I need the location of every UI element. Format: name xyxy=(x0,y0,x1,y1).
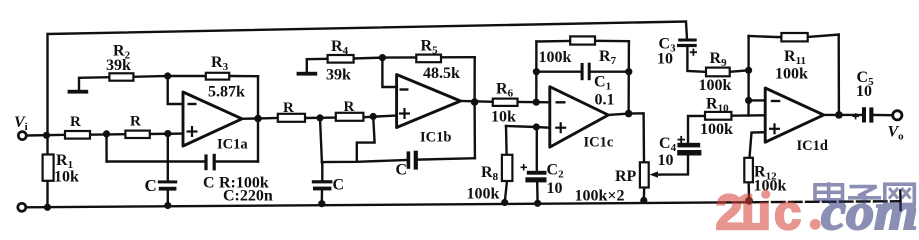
node R9 junction xyxy=(745,67,752,74)
wire IC1d plus input xyxy=(750,132,766,158)
capacitor C5 plus sign xyxy=(853,113,859,119)
op-amp IC1d plus sign xyxy=(769,123,780,134)
wire IC1c loop top right xyxy=(595,40,629,43)
wire IC1d output xyxy=(824,114,862,116)
node IC1d output xyxy=(835,111,843,119)
wire IC1b output xyxy=(461,100,493,103)
capacitor C3 xyxy=(677,39,697,48)
wire stage2 ground cap stub xyxy=(321,162,323,180)
wire top rail xyxy=(48,22,687,40)
wire C1 right lead xyxy=(591,70,629,72)
resistor R1 xyxy=(43,155,54,181)
wire R4 lead to ground xyxy=(307,59,328,72)
resistor R9 xyxy=(706,68,730,77)
node Vo terminal xyxy=(893,111,902,120)
svg-text:IC1b: IC1b xyxy=(420,130,451,146)
resistor R7 xyxy=(570,36,595,44)
svg-text:C: C xyxy=(396,162,408,179)
resistor R6 xyxy=(493,99,518,106)
wire junction to R3 xyxy=(168,75,206,77)
wire R2 left lead to ground xyxy=(79,77,109,90)
op-amp IC1d minus sign xyxy=(771,100,781,102)
svg-text:100k: 100k xyxy=(775,66,808,83)
svg-text:IC1a: IC1a xyxy=(217,137,248,153)
capacitor C1 xyxy=(581,63,591,80)
wire stage2 chain a xyxy=(305,116,336,119)
resistor R10 xyxy=(705,112,731,120)
node IC1c output xyxy=(625,110,633,118)
svg-text:C: C xyxy=(145,176,157,195)
wire Vi input xyxy=(27,134,65,137)
node C2 top junction xyxy=(533,123,540,130)
node RP ground xyxy=(640,197,647,204)
resistor R8 xyxy=(502,155,513,181)
wire stage1 feedback horizontal left xyxy=(107,160,205,162)
svg-text:RP: RP xyxy=(615,168,637,185)
wire IC1a feedback vertical xyxy=(257,76,259,161)
capacitor C5 xyxy=(862,107,873,122)
wire IC1c loop top left xyxy=(536,40,570,43)
op-amp IC1a plus sign xyxy=(187,126,198,137)
svg-text:21ıc: 21ıc xyxy=(716,186,802,231)
wire R9 to junction xyxy=(730,70,749,72)
op-amp IC1c minus sign xyxy=(556,101,566,103)
svg-text:10: 10 xyxy=(856,83,872,100)
node stage1 junction2 xyxy=(164,130,171,137)
capacitor C4 xyxy=(677,143,701,156)
node stage1 cap ground xyxy=(164,202,171,209)
wire R11 loop top right xyxy=(808,35,839,37)
resistor R (stage1 first) xyxy=(65,131,90,139)
svg-text:0.1: 0.1 xyxy=(595,92,615,109)
resistor R5 xyxy=(416,55,441,63)
svg-text:100k: 100k xyxy=(699,77,732,94)
node ground terminal xyxy=(18,203,26,211)
capacitor C2 plus sign xyxy=(521,164,528,171)
svg-text:100k: 100k xyxy=(700,121,733,138)
watermark hanzi dian xyxy=(815,182,845,203)
wire stage2 zigzag xyxy=(357,117,375,162)
wire R5 to vertical xyxy=(441,56,475,58)
ground symbol (R4) xyxy=(297,72,318,76)
wire R2 to junction xyxy=(133,75,167,78)
capacitor C (stage2 feedback) xyxy=(407,151,418,170)
wire stage1 feedback horizontal right xyxy=(216,160,258,162)
svg-text:10: 10 xyxy=(657,51,673,68)
wire R1 leads xyxy=(46,135,48,154)
wire stage2 feedback vertical xyxy=(473,102,476,158)
wire R6 right to minus node xyxy=(518,101,550,104)
capacitor C3 plus sign xyxy=(690,49,697,56)
wire R to IC1a plus input xyxy=(150,132,184,135)
svg-text:100k: 100k xyxy=(467,186,500,203)
resistor R (stage2 second) xyxy=(336,113,364,121)
wire stage1 junction1 drop xyxy=(105,134,107,162)
wire stage2 feedback horizontal xyxy=(322,160,407,162)
wire IC1d minus input xyxy=(749,99,766,101)
ground symbol (R2) xyxy=(68,90,89,94)
watermark dot xyxy=(810,219,821,230)
resistor R11 xyxy=(781,33,807,41)
svg-text:100k: 100k xyxy=(539,49,572,66)
watermark hanzi wang xyxy=(885,184,915,204)
op-amp IC1b plus sign xyxy=(399,108,410,119)
svg-text:R: R xyxy=(70,114,81,130)
svg-text:10: 10 xyxy=(658,152,674,169)
node R8 ground xyxy=(501,199,508,206)
wire bottom rail end tick xyxy=(899,191,902,211)
svg-text:48.5k: 48.5k xyxy=(423,65,460,82)
svg-text:10: 10 xyxy=(547,180,563,197)
wire stage1 ground cap drop xyxy=(167,134,169,181)
wire IC1c plus line xyxy=(506,126,550,128)
op-amp IC1c xyxy=(550,87,609,147)
wire C4 top lead xyxy=(688,116,705,143)
potentiometer RP wiper arrow xyxy=(650,171,659,177)
op-amp IC1c plus sign xyxy=(555,122,566,133)
wire R11 loop right vertical xyxy=(838,35,841,115)
resistor R4 xyxy=(328,55,354,63)
wire IC1c output xyxy=(608,113,644,162)
op-amp IC1b minus sign xyxy=(400,88,409,90)
svg-text:39k: 39k xyxy=(106,57,131,74)
node stage2 cap ground xyxy=(318,200,325,207)
svg-text:R: R xyxy=(283,100,294,116)
wire between R and R xyxy=(90,133,125,136)
node stage2 junction1 xyxy=(316,114,323,121)
wire R8 leads xyxy=(505,126,508,155)
node R10 minus junction xyxy=(745,97,752,104)
wire junction to R5 xyxy=(382,56,416,59)
wire C2 leads xyxy=(536,127,538,171)
node R2-R3 junction xyxy=(164,72,171,79)
wire IC1c loop left vertical xyxy=(535,42,538,103)
wire R4 to junction xyxy=(354,56,383,59)
node R6 minus junction xyxy=(533,99,540,106)
node stage1 junction1 xyxy=(103,130,110,137)
svg-text:IC1d: IC1d xyxy=(797,138,828,154)
resistor R2 xyxy=(109,73,133,80)
node IC1b output xyxy=(471,98,479,106)
node C2 ground xyxy=(534,200,541,207)
node IC1a output xyxy=(254,115,262,123)
node bottom-left junction xyxy=(44,204,51,211)
wire R11 loop top left xyxy=(749,36,782,37)
capacitor C (stage2 ground) xyxy=(312,180,333,190)
wire left frame vertical xyxy=(46,34,48,135)
svg-text:R: R xyxy=(130,114,141,130)
wire R10 to minus node xyxy=(731,114,764,117)
svg-text:10k: 10k xyxy=(54,169,79,186)
wire R12 bottom lead xyxy=(748,182,751,201)
resistor R12 xyxy=(744,158,753,183)
watermark hanzi zi xyxy=(848,187,881,206)
resistor R3 xyxy=(206,73,229,80)
svg-text:39k: 39k xyxy=(326,67,351,84)
node R12 ground xyxy=(745,197,753,205)
op-amp IC1a xyxy=(183,92,242,146)
wire C3 bottom lead to R9 xyxy=(687,47,706,72)
wire stage2 chain b xyxy=(363,116,396,118)
wire IC1b minus stub xyxy=(382,58,396,87)
wire R3 to output vertical xyxy=(229,75,258,78)
wire R11 loop left vertical xyxy=(747,36,749,100)
wire IC1b feedback vertical xyxy=(473,57,476,102)
capacitor C (stage1 feedback) xyxy=(204,154,215,171)
capacitor C4 plus sign xyxy=(678,136,686,144)
node C1 left junction xyxy=(533,68,540,75)
wire IC1a output xyxy=(242,117,278,120)
wire stage2 junction1 drop xyxy=(320,118,322,162)
svg-text:C:220n: C:220n xyxy=(223,188,273,205)
wire RP bottom lead xyxy=(643,188,646,201)
op-amp IC1b xyxy=(397,75,461,128)
op-amp IC1a minus sign xyxy=(188,103,197,105)
node Vi junction xyxy=(43,132,50,139)
node C1 right junction xyxy=(625,68,632,75)
wire C1 left lead xyxy=(536,70,580,72)
capacitor C (stage1 ground) xyxy=(158,180,177,190)
node Vi terminal xyxy=(18,132,26,140)
potentiometer RP xyxy=(640,162,649,187)
wire C5 to Vo xyxy=(874,114,892,117)
svg-text:C: C xyxy=(333,177,345,194)
svg-text:100k×2: 100k×2 xyxy=(575,188,625,205)
op-amp IC1d xyxy=(765,88,824,142)
resistor R (stage1 second) xyxy=(125,131,149,138)
watermark i dot xyxy=(761,190,770,199)
svg-text:IC1c: IC1c xyxy=(584,135,614,151)
wire RP wiper to C4 xyxy=(660,156,688,175)
capacitor C2 xyxy=(525,171,546,183)
resistor R (stage2 first) xyxy=(278,114,305,122)
node R4-R5 junction xyxy=(379,54,386,61)
svg-text:R: R xyxy=(344,99,355,115)
svg-text:C: C xyxy=(203,175,215,192)
svg-text:5.87k: 5.87k xyxy=(208,84,245,101)
wire IC1a minus input stub xyxy=(168,76,184,104)
svg-text:10k: 10k xyxy=(491,109,516,126)
wire bottom rail xyxy=(27,202,756,207)
wire IC1c loop right vertical xyxy=(627,41,630,113)
node stage2 junction2 xyxy=(370,113,377,120)
